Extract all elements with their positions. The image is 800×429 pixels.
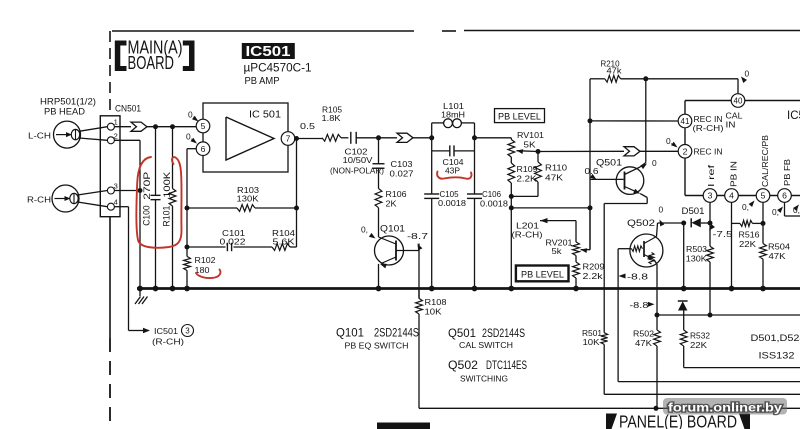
potentiometer RV101	[510, 138, 512, 140]
IC pin 41 circle	[678, 114, 692, 128]
node Q501 base divider	[588, 118, 593, 123]
svg-text:-8.7: -8.7	[407, 231, 428, 241]
svg-text:Q101: Q101	[336, 328, 364, 340]
svg-text:3: 3	[114, 181, 118, 190]
svg-text:R209: R209	[583, 262, 605, 272]
resistor R516	[732, 222, 741, 224]
transistor Q501 emitter lead	[625, 187, 639, 193]
svg-text:PB FB: PB FB	[783, 158, 792, 186]
svg-text:270P: 270P	[141, 172, 152, 200]
annotation arrow -8.7	[418, 244, 423, 251]
svg-text:47K: 47K	[545, 173, 563, 183]
wire elbow down to pin40	[737, 79, 739, 94]
inductor L101 coil	[432, 122, 444, 124]
wire Q101 emitter to bus	[378, 264, 380, 289]
red underline under R102 180	[196, 270, 220, 279]
svg-text:C100: C100	[140, 205, 151, 226]
svg-text:3: 3	[185, 327, 190, 336]
node Q502 emitter supply	[655, 313, 660, 318]
resistor R532	[683, 315, 685, 330]
board boundary left dashed line lower	[109, 338, 111, 429]
voltage 0 at pin40 rail	[741, 77, 747, 84]
IC pin 6 circle	[778, 189, 792, 203]
svg-text:CAL SWITCH: CAL SWITCH	[459, 340, 513, 350]
wire Q502 emitter down	[654, 259, 658, 264]
transistor Q502 base bar	[643, 241, 645, 257]
svg-text:Q502: Q502	[448, 360, 478, 372]
wire CN501 pin1 to chevron	[114, 126, 131, 128]
svg-text:0.027: 0.027	[390, 169, 414, 179]
bus node C106	[472, 286, 478, 292]
resistor R210	[590, 78, 605, 80]
svg-text:R503: R503	[686, 244, 707, 254]
capacitor C100	[155, 127, 157, 196]
panel board wire	[419, 407, 800, 409]
bus node D524	[681, 286, 687, 292]
bus node C105	[429, 286, 435, 292]
wire node to Q501 base vertical	[511, 207, 590, 209]
red squiggle under C104 43P	[437, 172, 471, 179]
wire pin7 out	[295, 138, 322, 140]
svg-text:0.5: 0.5	[300, 121, 315, 131]
inductor L101 left riser	[431, 123, 433, 138]
svg-text:IN: IN	[726, 120, 736, 129]
wire R-CH to CN501 pin3	[78, 191, 108, 196]
svg-text:(R-CH): (R-CH)	[512, 230, 543, 240]
wire CN501 pin3 right	[114, 190, 140, 192]
svg-text:5K: 5K	[524, 140, 536, 150]
bus node R109 line	[508, 286, 514, 292]
wire R103 row	[187, 207, 237, 209]
svg-text:22K: 22K	[739, 239, 756, 249]
svg-text:0.6: 0.6	[585, 166, 599, 176]
wire pin2 down to bus	[139, 140, 141, 288]
wire R532 elbow	[684, 367, 800, 369]
callout box PB LEVEL lower	[516, 266, 569, 282]
transistor Q501 base bar	[624, 172, 626, 190]
svg-text:10K: 10K	[583, 337, 600, 347]
node feedback R103	[294, 206, 299, 211]
diode D524	[678, 300, 688, 302]
wire chevron C to pin2	[640, 150, 678, 152]
svg-text:18mH: 18mH	[441, 110, 465, 120]
svg-text:5: 5	[761, 191, 766, 201]
svg-text:0: 0	[652, 158, 657, 168]
ground symbol	[139, 289, 141, 297]
svg-text:3: 3	[708, 191, 713, 201]
head L-CH circle	[54, 121, 81, 148]
L201 reference arrow	[540, 218, 548, 223]
label circled 3	[182, 325, 194, 337]
svg-text:PB LEVEL: PB LEVEL	[521, 270, 564, 280]
resistor R105	[322, 134, 341, 141]
svg-text:Q502: Q502	[627, 217, 655, 228]
svg-text:PB HEAD: PB HEAD	[44, 107, 86, 117]
svg-text:6: 6	[782, 191, 787, 201]
wire D501 junction down to bus	[683, 223, 685, 289]
wire CN501 pin4 right	[114, 206, 128, 208]
svg-text:0: 0	[745, 69, 750, 79]
svg-text:IC 501: IC 501	[249, 110, 281, 121]
bus node R102	[184, 286, 190, 292]
bus node C100	[153, 286, 159, 292]
transistor Q101 base bar	[395, 241, 397, 261]
Q502 internal be resistor	[649, 253, 654, 265]
resistor R109	[508, 163, 515, 183]
IC501 body top edge	[685, 100, 800, 102]
svg-text:REC IN: REC IN	[694, 147, 723, 156]
svg-text:ISS132: ISS132	[759, 350, 795, 361]
resistor R504	[760, 244, 767, 260]
head R-CH arrow	[55, 198, 68, 200]
wire Q502 base down	[617, 249, 619, 382]
wire R-CH to CN501 pin4	[78, 202, 108, 207]
node tank right	[472, 135, 477, 140]
node Q501 collector top	[643, 76, 648, 81]
resistor R503	[707, 246, 714, 262]
RV201 wiper arrow	[581, 248, 588, 253]
svg-text:4: 4	[729, 191, 734, 201]
resistor R101	[172, 127, 174, 189]
wire CN501 pin2 right	[114, 139, 140, 141]
svg-text:REC IN: REC IN	[694, 115, 723, 124]
CN501 pin 2	[107, 137, 114, 144]
svg-text:RV101: RV101	[517, 130, 544, 140]
voltage 0 at Q501 collector	[640, 164, 647, 170]
black label bar bottom	[377, 423, 430, 429]
wire -8.8 line elbow	[618, 381, 800, 383]
wire feedback vertical	[296, 139, 298, 248]
capacitor C106	[474, 151, 476, 194]
wire pin4 down	[128, 207, 130, 331]
svg-text:0: 0	[659, 205, 664, 215]
op-amp U-IC501 box	[203, 103, 288, 172]
label MAIN(A) BOARD left bracket	[115, 41, 127, 72]
board boundary top edge	[112, 30, 414, 32]
svg-text:41: 41	[681, 117, 690, 126]
label -8.8 upper	[619, 274, 626, 279]
svg-text:IC501: IC501	[246, 44, 291, 60]
wire chevron to op-amp pin5	[147, 126, 196, 128]
op-amp pin 6 circle	[196, 142, 210, 156]
wire pin5 down	[762, 202, 764, 243]
signal chevron arrow C	[624, 147, 640, 156]
wire R210 left leg down	[589, 79, 591, 121]
resistor R102	[184, 256, 191, 270]
board boundary left dashed line upper	[109, 31, 111, 116]
svg-text:130K: 130K	[237, 194, 259, 204]
op-amp pin 7 circle	[281, 132, 295, 146]
svg-text:µPC4570C-1: µPC4570C-1	[244, 61, 312, 75]
svg-text:22K: 22K	[690, 340, 707, 350]
svg-text:R101: R101	[161, 206, 172, 227]
annotation arrow 0.6	[590, 174, 597, 180]
wire Q502 collector up	[657, 223, 658, 237]
node C100 top	[153, 124, 158, 129]
svg-text:PB AMP: PB AMP	[245, 76, 280, 87]
svg-text:(R-CH): (R-CH)	[693, 124, 724, 133]
capacitor C102	[350, 132, 352, 144]
wire Q101 base	[396, 250, 419, 252]
svg-text:47k: 47k	[607, 65, 623, 75]
wire pin4 elbow right with arrow	[129, 330, 144, 332]
svg-text:C106: C106	[482, 189, 501, 199]
wire to chevron B	[379, 137, 398, 139]
node R109 R110 join	[509, 194, 514, 199]
svg-text:0,: 0,	[742, 202, 749, 212]
node at Q501 base line	[588, 205, 593, 210]
transistor Q501 collector lead	[625, 167, 641, 175]
svg-text:forum.onliner.by: forum.onliner.by	[668, 401, 783, 415]
bus node pin4 line	[729, 286, 735, 292]
bus node Q101 emitter	[376, 286, 382, 292]
label PANEL(E) BOARD left bracket	[606, 414, 617, 429]
supply wire -8.8 horizontal	[657, 314, 800, 316]
svg-text:47K: 47K	[769, 251, 786, 261]
ground bus	[137, 287, 800, 290]
svg-text:IC501: IC501	[154, 326, 178, 336]
wire pin3 down	[709, 202, 711, 246]
op-amp triangle	[226, 117, 274, 160]
wire Q501 emitter path	[640, 194, 647, 198]
CN501 pin 4	[107, 203, 114, 210]
wire Q501 collector up	[645, 79, 647, 163]
CN501 pin 3	[107, 187, 114, 194]
node tank left	[429, 135, 434, 140]
svg-text:2: 2	[114, 131, 118, 140]
signal chevron arrow B	[397, 133, 413, 142]
wire Q501 base	[590, 178, 624, 180]
resistor R501	[601, 333, 608, 345]
svg-text:PB LEVEL: PB LEVEL	[498, 111, 541, 121]
head R-CH gap symbol	[70, 193, 78, 203]
svg-text:R-CH: R-CH	[27, 195, 51, 205]
node C101 left	[185, 245, 190, 250]
svg-text:2.2k: 2.2k	[583, 271, 604, 281]
Q502 internal base resistor	[632, 246, 643, 252]
svg-text:2K: 2K	[386, 199, 397, 209]
wire Q502 base	[618, 248, 631, 250]
wire pin6 out	[784, 202, 786, 216]
resistor R209	[573, 262, 580, 278]
svg-text:130K: 130K	[686, 254, 707, 264]
resistor R104	[272, 244, 290, 251]
wire chevron B to LC tank	[413, 137, 432, 139]
svg-text:CAL: CAL	[726, 112, 743, 121]
diode D501	[690, 218, 692, 227]
svg-text:2SD2144S: 2SD2144S	[482, 328, 525, 340]
svg-text:-8.8: -8.8	[627, 272, 648, 282]
svg-text:I ref: I ref	[707, 164, 716, 187]
board boundary left line below connector	[109, 217, 111, 338]
node R502 panel join	[654, 406, 659, 411]
node R503 supply	[708, 313, 713, 318]
wire node to IC pin41	[590, 120, 678, 122]
wire RV101 node down to bus	[510, 196, 512, 288]
wire wiper to chevron C	[538, 150, 624, 152]
svg-text:DTC114ES: DTC114ES	[486, 360, 527, 372]
svg-text:5.6K: 5.6K	[273, 237, 296, 247]
head L-CH arrow	[56, 134, 69, 136]
svg-text:HRP501(1/2): HRP501(1/2)	[40, 97, 96, 107]
node R101 top	[170, 124, 175, 129]
node D501 anode junction	[681, 221, 686, 226]
svg-text:0.0018: 0.0018	[438, 198, 466, 208]
IC pin 4 circle	[725, 189, 739, 203]
svg-text:0,: 0,	[772, 207, 779, 217]
svg-text:6: 6	[201, 144, 206, 154]
svg-text:0.0018: 0.0018	[480, 199, 508, 209]
svg-text:47K: 47K	[635, 338, 652, 348]
svg-text:BOARD: BOARD	[128, 52, 175, 73]
label -7.5	[709, 224, 715, 231]
wire op-amp pin6 to feedback line	[187, 148, 196, 150]
bus node pin2 line	[137, 286, 143, 292]
node RV101 wiper	[536, 149, 541, 154]
node pin3 joins pin2 line	[138, 188, 143, 193]
svg-text:10K: 10K	[425, 307, 442, 317]
svg-text:R109: R109	[517, 164, 538, 174]
inductor L101 right riser	[474, 123, 476, 138]
node R516 to pin5 line	[761, 221, 766, 226]
transistor Q101 circle	[375, 236, 404, 265]
head R-CH circle	[52, 185, 79, 212]
capacitor C105	[431, 151, 433, 194]
op-amp pin 5 circle	[196, 119, 210, 133]
node C103 top	[376, 135, 381, 140]
svg-text:1.8K: 1.8K	[322, 113, 341, 123]
svg-text:D501: D501	[682, 206, 705, 216]
signal chevron arrow A	[131, 122, 147, 131]
IC501 title black box	[242, 43, 295, 59]
svg-text:R106: R106	[386, 189, 407, 199]
RV101 wiper arrow	[517, 149, 524, 154]
node R103 left	[185, 206, 190, 211]
IC pin 2 circle	[678, 145, 692, 159]
svg-text:D501,D524: D501,D524	[751, 332, 800, 343]
svg-text:1: 1	[114, 118, 118, 127]
svg-text:7: 7	[286, 134, 291, 144]
svg-text:43P: 43P	[445, 166, 460, 176]
wire R106 to Q101 collector	[378, 208, 380, 237]
svg-text:Q501: Q501	[596, 157, 622, 168]
node L201 takeoff	[509, 205, 514, 210]
svg-text:10/50V: 10/50V	[343, 155, 373, 165]
svg-text:-7.5: -7.5	[713, 229, 733, 239]
transistor Q101 emitter lead	[381, 257, 396, 264]
wire L-CH to CN501 pin1	[79, 127, 107, 132]
svg-text:R102: R102	[195, 255, 216, 265]
head L-CH gap symbol	[71, 129, 79, 139]
wire tank to RV101	[475, 137, 512, 139]
svg-text:Q101: Q101	[380, 224, 405, 234]
IC501 body left edge	[684, 101, 686, 196]
svg-text:L-CH: L-CH	[28, 131, 51, 141]
label MAIN(A) BOARD right bracket	[183, 41, 195, 72]
wire R210 right to pin40 elbow	[646, 78, 738, 80]
svg-text:4: 4	[114, 198, 118, 207]
IC pin 40 circle	[731, 94, 745, 108]
svg-text:100K: 100K	[161, 171, 172, 198]
svg-text:CN501: CN501	[115, 104, 141, 114]
watermark forum.onliner.by	[663, 398, 787, 415]
svg-text:0,: 0,	[361, 225, 368, 235]
callout box PB LEVEL upper	[495, 109, 545, 123]
svg-text:Q501: Q501	[448, 328, 476, 340]
wire C101 R104 row	[187, 246, 226, 248]
svg-text:40: 40	[734, 97, 743, 106]
label PANEL(E) BOARD right bracket	[739, 414, 750, 429]
capacitor C103	[378, 138, 380, 164]
svg-text:5: 5	[201, 121, 206, 131]
svg-text:CAL/REC/PB: CAL/REC/PB	[761, 134, 770, 187]
resistor R502	[656, 315, 658, 330]
svg-text:(R-CH): (R-CH)	[152, 338, 184, 347]
node D501 cathode to pin3 line	[708, 221, 713, 226]
resistor R103	[237, 205, 255, 212]
svg-text:0.022: 0.022	[220, 237, 246, 247]
transistor Q501 circle	[616, 167, 644, 195]
IC pin 3 circle	[703, 189, 717, 203]
wire R501 to panel right	[604, 393, 800, 395]
resistor R110	[537, 152, 539, 162]
svg-text:PB EQ SWITCH: PB EQ SWITCH	[345, 341, 409, 351]
wire base node down to R108	[418, 244, 420, 299]
bus node R101	[170, 286, 176, 292]
potentiometer RV201	[573, 242, 580, 256]
connector CN501 body	[100, 116, 120, 217]
transistor Q502 circle	[630, 234, 663, 267]
svg-text:R108: R108	[425, 297, 447, 307]
svg-text:R110: R110	[545, 163, 567, 173]
node pin7 junction	[294, 136, 299, 141]
transistor Q502 collector lead	[644, 237, 657, 244]
resistor R108	[418, 289, 420, 299]
resistor R106	[375, 189, 382, 208]
wire pin4 down to bus	[731, 202, 733, 288]
svg-text:C103: C103	[391, 159, 413, 169]
bus node R209	[573, 286, 579, 292]
svg-text:PB IN: PB IN	[730, 161, 739, 187]
svg-text:R516: R516	[739, 230, 760, 240]
svg-text:2SD2144S: 2SD2144S	[374, 328, 419, 340]
svg-text:2.2K: 2.2K	[517, 174, 537, 184]
wire base node down	[589, 121, 591, 250]
wire L-CH to CN501 pin2	[79, 138, 107, 140]
transistor Q502 emitter lead	[644, 255, 652, 259]
capacitor C101	[226, 243, 228, 251]
transistor Q101 collector lead	[379, 237, 397, 244]
CN501 pin 1	[107, 123, 114, 130]
IC501 body bottom edge	[685, 195, 800, 197]
IC pin 5 circle	[756, 189, 770, 203]
red annotation loop around C100 R101	[136, 157, 181, 248]
svg-text:5k: 5k	[552, 246, 563, 256]
svg-text:-8.8: -8.8	[630, 300, 649, 310]
svg-text:IC5: IC5	[787, 110, 800, 122]
svg-text:2: 2	[683, 147, 688, 157]
bus node R504	[760, 286, 766, 292]
svg-text:SWITCHING: SWITCHING	[460, 374, 508, 384]
capacitor C104 branch	[431, 138, 433, 151]
